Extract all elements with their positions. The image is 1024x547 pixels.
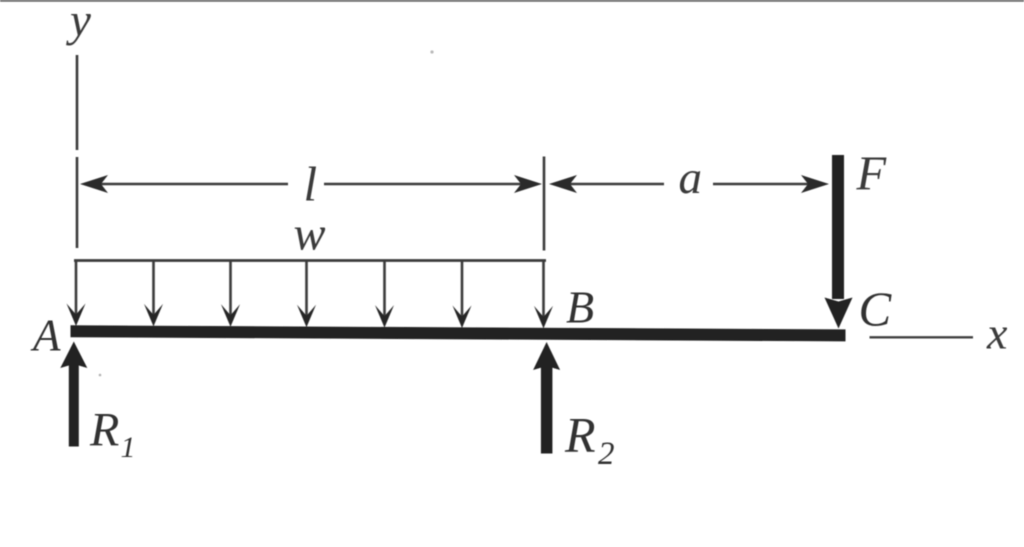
load arrow 5 [383, 261, 386, 321]
arrowhead right of l [514, 175, 542, 193]
svg-text:A: A [30, 311, 61, 361]
svg-text:1: 1 [121, 431, 136, 464]
arrowhead left of a [549, 175, 577, 193]
load arrow 3 [229, 261, 232, 320]
svg-text:F: F [856, 148, 888, 201]
y-axis line [76, 55, 79, 248]
beam [71, 325, 846, 341]
faint speck 2 [99, 374, 102, 377]
load arrow 4 [305, 261, 308, 320]
load arrow 1 [75, 261, 78, 319]
svg-text:x: x [986, 308, 1008, 359]
faint speck 1 [430, 50, 433, 53]
svg-text:a: a [679, 152, 703, 204]
svg-text:C: C [859, 282, 893, 337]
reaction R1 arrow [69, 364, 79, 447]
arrowhead right of a [801, 175, 829, 193]
distributed load top line [74, 259, 546, 262]
svg-text:y: y [66, 0, 91, 47]
force F arrow [832, 155, 844, 299]
svg-text:w: w [294, 208, 326, 261]
svg-text:R: R [89, 404, 119, 457]
arrowhead left of l [80, 175, 108, 193]
svg-text:2: 2 [598, 436, 615, 472]
top scan border [0, 0, 1024, 2]
dimension line l [98, 183, 524, 185]
svg-text:B: B [566, 282, 594, 333]
svg-text:R: R [564, 407, 596, 463]
reaction R2 arrow [541, 364, 553, 454]
x-axis line [870, 336, 974, 338]
load arrow 7 [542, 261, 545, 321]
load arrow 2 [152, 261, 155, 319]
dimension line a [560, 183, 812, 185]
svg-text:l: l [304, 157, 318, 212]
extension line at B [543, 157, 546, 251]
load arrow 6 [461, 261, 464, 321]
